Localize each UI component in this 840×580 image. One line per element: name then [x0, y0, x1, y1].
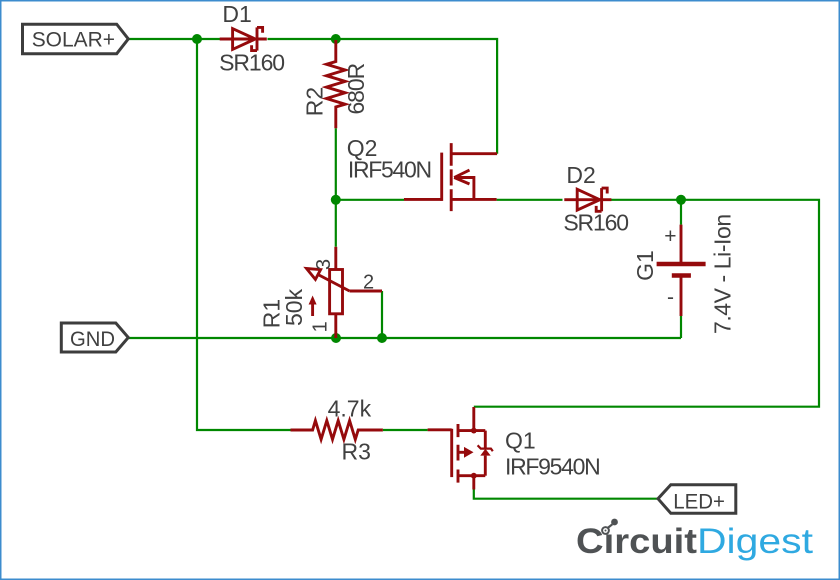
- svg-text:SOLAR+: SOLAR+: [32, 29, 115, 52]
- svg-text:SR160: SR160: [219, 50, 285, 76]
- svg-text:G1: G1: [632, 250, 658, 281]
- svg-text:R3: R3: [342, 439, 371, 465]
- svg-text:SR160: SR160: [563, 209, 629, 235]
- svg-text:LED+: LED+: [673, 490, 725, 513]
- svg-text:680R: 680R: [343, 63, 369, 115]
- svg-text:D1: D1: [222, 1, 251, 27]
- svg-text:Q1: Q1: [505, 427, 536, 453]
- svg-text:2: 2: [363, 271, 374, 293]
- svg-text:1: 1: [310, 321, 332, 332]
- svg-text:R2: R2: [301, 87, 327, 116]
- svg-text:-: -: [667, 286, 674, 309]
- svg-text:IRF9540N: IRF9540N: [505, 453, 601, 479]
- svg-text:IRF540N: IRF540N: [348, 156, 432, 182]
- svg-text:50k: 50k: [281, 288, 307, 326]
- svg-text:4.7k: 4.7k: [328, 396, 372, 422]
- svg-text:D2: D2: [566, 162, 595, 188]
- svg-text:3: 3: [313, 259, 335, 270]
- svg-text:GND: GND: [70, 328, 115, 351]
- svg-text:Cırcuit: Cırcuit: [576, 522, 697, 561]
- svg-text:+: +: [664, 225, 676, 248]
- svg-text:Digest: Digest: [697, 522, 813, 561]
- svg-text:7.4V - Li-Ion: 7.4V - Li-Ion: [710, 214, 736, 334]
